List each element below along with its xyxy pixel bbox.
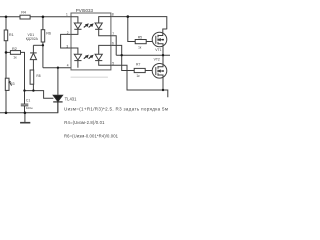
svg-text:R4=(Uизм-2.8)/0.01: R4=(Uизм-2.8)/0.01	[64, 120, 105, 125]
wire top rail left	[0, 16, 20, 18]
wire bottom rail	[0, 102, 58, 113]
svg-text:5: 5	[112, 62, 114, 66]
svg-text:R7: R7	[136, 62, 140, 66]
svg-text:R5: R5	[138, 35, 142, 39]
mid rail (VT sources)	[116, 54, 170, 56]
artifact faint line	[71, 76, 108, 78]
photodiode ch2	[95, 45, 111, 65]
transistor VT1	[152, 32, 167, 47]
LED ch1	[71, 17, 82, 35]
svg-text:R8: R8	[36, 74, 40, 78]
LED ch2	[71, 48, 82, 68]
wire R5 to VT1 gate	[146, 41, 152, 43]
svg-text:6: 6	[112, 42, 114, 46]
trimmer R3	[5, 78, 11, 90]
resistor R8 (mid lower)	[30, 70, 34, 84]
resistor R1	[4, 30, 8, 41]
svg-text:4: 4	[67, 63, 69, 67]
wire R5 feed	[128, 17, 135, 42]
wire top rail right (pin8 net)	[111, 17, 167, 30]
svg-text:100н: 100н	[26, 106, 33, 110]
wire R7 to VT2 gate	[145, 70, 152, 72]
VT1 drain lead	[163, 29, 167, 33]
svg-text:1к: 1к	[13, 55, 17, 59]
ground stub	[24, 113, 26, 123]
wire left rail	[5, 17, 7, 30]
svg-text:TL431: TL431	[65, 97, 78, 102]
pin6 wire	[111, 45, 134, 70]
svg-text:7: 7	[112, 32, 114, 36]
svg-text:R4: R4	[21, 11, 26, 15]
node: junction dots	[5, 15, 165, 114]
optocoupler U1 PVI5033 box	[71, 13, 111, 70]
wire R6 column	[42, 17, 44, 30]
shunt regulator TL431	[53, 95, 62, 102]
capacitor C1	[21, 104, 29, 106]
wire R2 branch	[6, 51, 10, 53]
svg-text:C1: C1	[26, 99, 30, 103]
resistor R4	[20, 15, 30, 19]
svg-text:3: 3	[66, 44, 68, 48]
svg-text:R1: R1	[9, 33, 14, 37]
VT2 drain lead	[162, 55, 164, 64]
wire ref node	[25, 91, 54, 99]
svg-text:VT1: VT1	[155, 48, 161, 52]
diode VD1	[30, 53, 37, 60]
wire top rail mid	[30, 16, 71, 18]
svg-text:8: 8	[112, 12, 114, 16]
svg-text:2: 2	[67, 31, 69, 35]
light arrows ch1	[84, 24, 93, 27]
resistor R7	[134, 68, 145, 72]
pin5 wire	[111, 65, 168, 97]
svg-text:VT2: VT2	[154, 58, 160, 62]
wire TL431 anode	[57, 102, 59, 113]
pin7 wire	[111, 36, 116, 56]
light arrows ch2	[84, 56, 93, 59]
svg-text:КД202А: КД202А	[26, 37, 39, 41]
VT1 source lead	[162, 46, 164, 55]
resistor R5	[135, 40, 146, 44]
wire TL431 cathode	[57, 68, 59, 95]
svg-text:Uизм=(1+R1/R3)*2.5. R3 задать: Uизм=(1+R1/R3)*2.5. R3 задать порядка 5м	[64, 106, 168, 111]
pin2 wire	[61, 34, 71, 48]
resistor R6	[41, 30, 45, 42]
svg-text:R6=(Uизм-0.001*R4)/0.001: R6=(Uизм-0.001*R4)/0.001	[64, 134, 119, 139]
photodiode ch1	[95, 17, 111, 36]
svg-text:R6: R6	[46, 32, 51, 36]
resistor R2	[10, 51, 20, 55]
svg-text:R2: R2	[12, 47, 17, 51]
VT2 source lead	[162, 78, 164, 90]
svg-text:PVI5033: PVI5033	[76, 8, 94, 13]
ground	[20, 122, 30, 124]
wire VD1 branch	[33, 44, 43, 46]
transistor VT2	[152, 64, 167, 79]
svg-text:1: 1	[66, 13, 68, 17]
wire pin4 net	[43, 67, 71, 69]
svg-text:R3: R3	[10, 82, 14, 86]
